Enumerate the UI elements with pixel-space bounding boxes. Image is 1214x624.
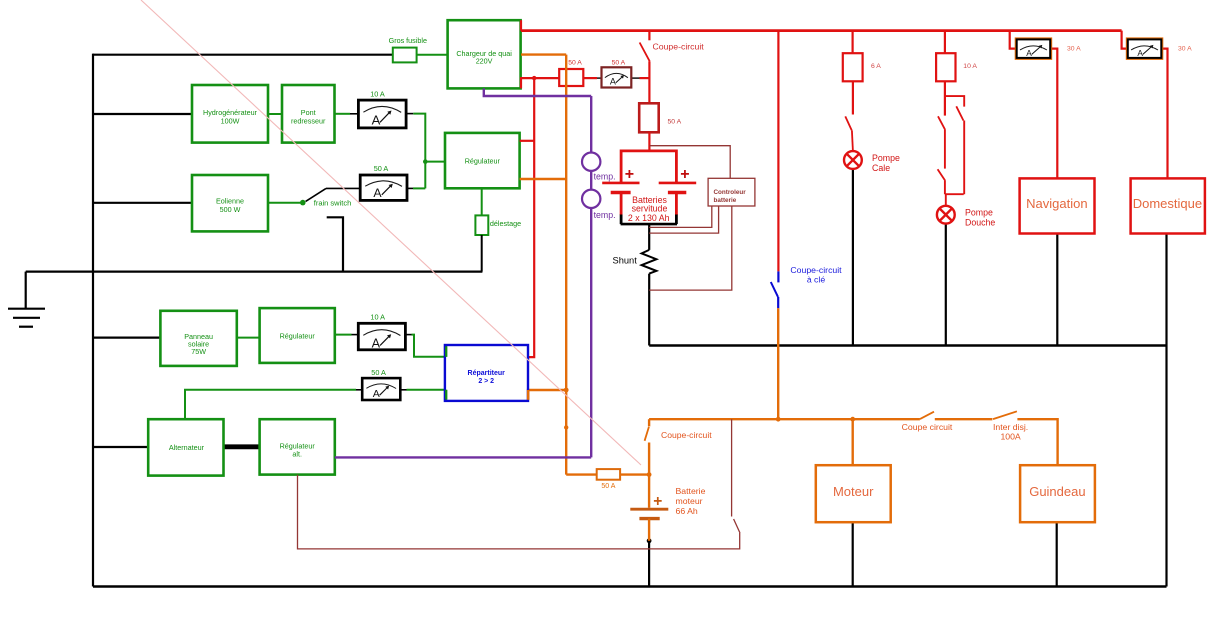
svg-text:Coupe-circuit: Coupe-circuit — [790, 265, 842, 275]
svg-text:30 A: 30 A — [1178, 45, 1192, 52]
svg-text:Cale: Cale — [872, 163, 890, 173]
wire left vertical negative bus — [92, 54, 94, 587]
svg-text:A: A — [610, 77, 616, 87]
label controleur batterie — [714, 189, 747, 204]
svg-text:10 A: 10 A — [370, 89, 385, 98]
svg-text:+: + — [653, 493, 662, 510]
wire controleur mid sense 1 — [649, 206, 712, 227]
svg-text:frain switch: frain switch — [314, 199, 352, 208]
wire panneau solaire feed — [93, 337, 160, 339]
svg-text:Navigation: Navigation — [1026, 196, 1087, 211]
wire temp line middle — [590, 171, 592, 190]
wire controleur top sense — [649, 146, 730, 179]
wire top negative bus — [93, 54, 393, 56]
node orange stray junction — [564, 425, 568, 429]
wire chargeur corner stub — [520, 20, 522, 30]
fuse gros fusible — [393, 48, 417, 63]
wire hydro to pont — [268, 113, 282, 115]
label pompe douche — [965, 207, 995, 227]
wire lead A4 right black — [400, 389, 406, 391]
wire a cle orange lower — [777, 308, 779, 419]
svg-text:Domestique: Domestique — [1133, 196, 1202, 211]
wire hydrogenerateur feed — [93, 113, 192, 115]
wire A3 output to repartiteur — [412, 335, 445, 357]
node frain switch contact — [300, 200, 306, 206]
node regulateur input — [423, 159, 428, 164]
wire A5 to battery branch — [640, 77, 650, 79]
wire a cle branch red — [777, 31, 779, 272]
box regulateur (solaire) — [260, 308, 335, 363]
box guindeau — [1020, 465, 1095, 522]
svg-text:A: A — [373, 388, 380, 400]
svg-text:30 A: 30 A — [1067, 45, 1081, 52]
fuse 10A — [936, 53, 955, 81]
wire right section negative bus — [649, 344, 1166, 347]
switch douche bottom bracket — [945, 193, 964, 195]
svg-text:redresseur: redresseur — [291, 117, 326, 126]
svg-text:alt.: alt. — [292, 449, 302, 458]
wire regulateur red tap — [520, 140, 535, 142]
wire brown blade lower — [298, 475, 740, 549]
svg-text:Alternateur: Alternateur — [169, 443, 205, 452]
label repartiteur — [468, 370, 506, 385]
switch pompe cale blade — [845, 116, 851, 130]
svg-text:Coupe-circuit: Coupe-circuit — [661, 430, 712, 440]
svg-text:Batterie: Batterie — [676, 486, 706, 496]
wire blade to lamp — [852, 130, 853, 151]
svg-text:A: A — [1137, 48, 1143, 58]
switch douche left blade 1 — [938, 116, 945, 130]
box repartiteur — [445, 345, 528, 401]
svg-text:A: A — [372, 337, 381, 351]
wire lead A5 left black — [597, 77, 602, 79]
wire fuse 6A down — [852, 81, 854, 114]
sensor temp 2 — [582, 190, 600, 208]
battery batterie moteur symbol — [630, 509, 668, 518]
label batterie moteur — [676, 486, 706, 516]
wire orange load bus — [649, 418, 920, 420]
wire shunt to bus — [648, 274, 650, 346]
svg-text:Pompe: Pompe — [965, 207, 993, 217]
wire pompe douche branch — [944, 31, 946, 54]
wire douche left pole mid — [944, 130, 946, 169]
svg-text:75W: 75W — [191, 347, 206, 356]
wire pompe douche return — [945, 224, 947, 346]
svg-text:Guindeau: Guindeau — [1029, 484, 1085, 499]
box regulateur (top) — [445, 133, 520, 188]
svg-text:50 A: 50 A — [374, 164, 389, 173]
wire batterie moteur negative — [648, 541, 650, 587]
box moteur — [816, 465, 891, 522]
wire brown regulateur alt circuit — [731, 419, 733, 516]
wire panneau to regulateur2 — [237, 337, 260, 339]
wire coupe-circuit to fuse 50A — [648, 61, 650, 103]
fuse 50A chargeur — [559, 69, 583, 86]
wire lead A5 right black — [631, 77, 639, 79]
switch coupe-circuit moteur upper — [648, 419, 650, 426]
svg-text:Moteur: Moteur — [833, 484, 874, 499]
wire regulateur2 to ammeter A3 — [335, 334, 352, 336]
wire eolienne feed — [93, 202, 192, 204]
wire repartiteur edge stub bottom overlay — [445, 390, 447, 400]
wire ground horizontal — [26, 271, 483, 273]
svg-text:A: A — [372, 112, 381, 127]
wire douche right pole — [963, 121, 965, 195]
wire domestique return — [1165, 234, 1167, 587]
svg-text:A: A — [1026, 48, 1032, 58]
ammeter A6 30A navigation — [1015, 38, 1051, 59]
wire A6 output to navigation box — [1050, 49, 1057, 179]
switch coupe-circuit a cle upper — [777, 271, 779, 282]
svg-text:66 Ah: 66 Ah — [676, 506, 698, 516]
wire node to regulateur — [425, 161, 445, 163]
svg-text:Répartiteur: Répartiteur — [468, 370, 506, 377]
wire chargeur orange output — [521, 53, 566, 55]
wire pompe cale return — [852, 169, 854, 346]
wire domestique drop — [1122, 31, 1128, 49]
wire controleur mid sense 2 — [649, 206, 718, 233]
switch douche right blade — [956, 106, 963, 120]
svg-text:10 A: 10 A — [963, 63, 977, 70]
svg-text:Régulateur: Régulateur — [280, 331, 316, 340]
wire coupe-circuit moteur lower — [648, 443, 650, 475]
svg-text:50 A: 50 A — [668, 119, 682, 126]
wire bracket to lamp — [945, 194, 947, 206]
wire battery minus to shunt — [648, 224, 650, 250]
wire repartiteur edge stub top overlay — [445, 346, 447, 356]
wire repartiteur edge stub bottom — [445, 390, 447, 400]
wire chargeur lower red output — [521, 78, 559, 88]
svg-text:500 W: 500 W — [220, 205, 241, 214]
wire lead A3 left black — [352, 334, 359, 336]
ground — [8, 272, 45, 327]
wire purple chargeur to temp line — [484, 88, 591, 96]
wire orange to fuse 50A moteur — [566, 473, 597, 475]
wire lead A2 right black — [407, 187, 413, 189]
resistor delestage — [475, 215, 488, 235]
wire delestage to ground line black — [481, 235, 483, 272]
switch brown blade — [734, 519, 740, 533]
svg-text:Coupe-circuit: Coupe-circuit — [653, 42, 705, 52]
box controleur batterie — [708, 178, 755, 206]
wire eolienne return — [327, 217, 343, 271]
battery servitude symbol — [602, 150, 696, 225]
wire A1 output to regulateur node — [413, 114, 425, 189]
ammeter A1 10A hydrogenerateur — [358, 100, 406, 128]
label batteries servitude — [628, 195, 670, 223]
fuse 50A servitude — [639, 103, 659, 132]
wire A2 output green — [413, 187, 425, 189]
wire controleur shunt sense — [649, 206, 732, 290]
svg-text:+: + — [625, 166, 634, 183]
wire orange vertical chargeur to batterie moteur — [565, 55, 567, 475]
wire temp line upper — [590, 96, 592, 153]
svg-text:temp.: temp. — [594, 172, 616, 182]
box alternateur — [148, 419, 223, 475]
wire A4 output to repartiteur — [407, 389, 445, 391]
box eolienne — [192, 175, 268, 231]
ammeter A2 50A eolienne — [360, 175, 407, 200]
switch coupe-circuit a cle blade — [771, 282, 778, 297]
svg-text:50 A: 50 A — [371, 368, 386, 377]
ammeter A5 50A servitude — [602, 67, 632, 87]
switch coupe-circuit a cle lower — [777, 297, 779, 308]
wire guindeau return — [1056, 522, 1058, 586]
switch douche left blade 2 — [938, 169, 946, 181]
wire frain switch to ammeter — [326, 187, 360, 189]
wire alternateur feed — [93, 446, 148, 448]
svg-text:Controleur: Controleur — [714, 189, 747, 196]
wire temp line lower — [590, 208, 592, 457]
ammeter A4 50A alternateur — [362, 378, 400, 400]
box regulateur alt — [260, 419, 335, 474]
box domestique — [1131, 178, 1205, 233]
wire douche left pole lower — [944, 181, 946, 194]
wire batterie moteur stem — [648, 475, 650, 508]
wire lead A1 left black — [350, 113, 358, 115]
wire moteur drop — [852, 419, 854, 465]
svg-text:2 > 2: 2 > 2 — [478, 378, 494, 385]
wire orange bus segment 3 to guindeau — [1017, 419, 1057, 465]
node batterie moteur plus — [647, 472, 652, 477]
lamp pompe douche — [937, 206, 955, 224]
node chargeur red tap — [532, 76, 536, 80]
node moteur junction — [850, 417, 855, 422]
svg-text:50 A: 50 A — [601, 483, 615, 490]
wire repartiteur orange output — [528, 390, 566, 400]
wire batterie moteur below — [648, 519, 650, 541]
box panneau solaire — [160, 311, 236, 366]
ammeter A7 30A domestique — [1127, 38, 1163, 59]
box chargeur de quai — [448, 20, 521, 88]
svg-text:délestage: délestage — [490, 219, 521, 228]
box pont redresseur — [282, 85, 335, 143]
svg-text:Gros fusible: Gros fusible — [389, 36, 427, 45]
svg-text:50 A: 50 A — [568, 59, 582, 66]
switch frain switch blade — [306, 188, 326, 201]
fuse 50A moteur — [597, 469, 620, 480]
shunt resistor zigzag — [642, 250, 657, 274]
wire fuse to batterie moteur node — [620, 473, 649, 475]
wire eolienne to frain switch — [268, 202, 303, 204]
switch coupe-circuit servitude upper — [648, 31, 650, 41]
svg-text:2 x 130 Ah: 2 x 130 Ah — [628, 213, 670, 223]
wire regulateur to delestage — [481, 188, 483, 215]
wire navigation return — [1056, 234, 1058, 346]
wire pompe cale branch — [851, 31, 853, 54]
lamp pompe cale — [844, 151, 862, 169]
wire orange bus segment 2 — [935, 418, 993, 420]
wire fuse to battery servitude — [648, 132, 650, 151]
switch coupe-circuit servitude blade — [640, 43, 650, 62]
switch douche top bracket — [945, 96, 964, 107]
svg-text:Coupe circuit: Coupe circuit — [902, 422, 953, 432]
wire lead A1 right black — [406, 113, 413, 115]
box navigation — [1020, 178, 1095, 233]
svg-text:batterie: batterie — [714, 197, 737, 204]
wire purple to regulateur alt — [335, 456, 591, 458]
svg-text:Douche: Douche — [965, 218, 995, 228]
svg-text:10 A: 10 A — [370, 312, 385, 321]
wire bottom negative bus — [93, 585, 1167, 588]
node batterie moteur negative — [647, 538, 652, 543]
wire lead A4 left black — [356, 389, 362, 391]
wire pink annotation line — [141, 0, 641, 465]
svg-text:6 A: 6 A — [871, 63, 881, 70]
wire main red positive bus — [521, 29, 1122, 32]
wire alternateur to ammeter A4 — [185, 390, 356, 419]
switch coupe-circuit moteur blade — [645, 427, 649, 441]
wire pont to ammeter A1 — [335, 113, 351, 115]
svg-text:220V: 220V — [476, 57, 493, 66]
svg-text:Inter disj.: Inter disj. — [993, 422, 1028, 432]
sensor temp 1 — [582, 153, 600, 171]
wire lead A3 right black — [405, 334, 411, 336]
wire repartiteur edge stub top — [445, 346, 447, 357]
svg-text:50 A: 50 A — [612, 59, 626, 66]
wire fuse 10A down — [944, 81, 946, 115]
wire navigation drop — [1010, 31, 1017, 49]
wire A7 output to domestique box — [1161, 49, 1167, 179]
fuse 6A — [843, 53, 863, 81]
svg-text:Shunt: Shunt — [613, 255, 638, 265]
svg-text:à clé: à clé — [807, 275, 826, 285]
svg-text:A: A — [373, 186, 382, 200]
svg-text:100A: 100A — [1000, 432, 1020, 442]
wire moteur return — [852, 522, 854, 586]
wire repartiteur orange edge stub overlay — [527, 390, 529, 400]
wire regulateur orange tap — [520, 178, 567, 180]
wire thick alternateur link — [224, 444, 261, 449]
svg-text:100W: 100W — [221, 117, 240, 126]
wire repartiteur to chargeur vertical — [528, 78, 534, 357]
node repartiteur orange junction — [564, 388, 569, 393]
label coupe-circuit a cle — [790, 265, 842, 285]
box hydrogenerateur — [192, 85, 268, 143]
ammeter A3 10A solaire — [358, 323, 405, 350]
svg-text:moteur: moteur — [676, 496, 703, 506]
switch inter disj blade — [993, 411, 1017, 419]
svg-text:Régulateur: Régulateur — [465, 157, 501, 166]
svg-text:Pompe: Pompe — [872, 153, 900, 163]
wire gros fusible to chargeur — [417, 54, 448, 56]
switch coupe circuit guindeau blade — [920, 412, 934, 419]
svg-text:+: + — [680, 166, 689, 183]
wire fuse to ammeter A5 — [583, 77, 597, 79]
node a cle junction — [776, 417, 781, 422]
label pompe cale — [872, 153, 900, 173]
svg-text:temp.: temp. — [594, 210, 616, 220]
